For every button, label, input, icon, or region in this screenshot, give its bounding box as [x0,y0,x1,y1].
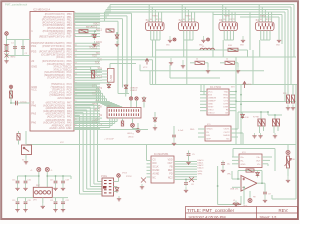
C6 label [191,184,195,186]
capacitor C7 [221,161,225,167]
svg-text:PD: PD [169,174,173,176]
vcc rail y144 [26,144,296,146]
junction opamp [217,185,219,187]
C7 stem [222,167,224,169]
net label H [276,45,280,47]
svg-text:VCC: VCC [31,88,37,92]
R11 wires [190,63,208,67]
svg-text:VB1: VB1 [166,45,170,47]
net label G [240,45,244,47]
D10 label [245,117,250,119]
IC4 pin names [153,159,174,179]
svg-text:PWR3: PWR3 [224,16,231,18]
pot arrow [285,159,292,167]
ground G15 [153,125,157,131]
capacitor C11 [24,179,28,185]
ground G19 [186,160,190,165]
svg-text:NC: NC [153,177,157,179]
c14 label [12,200,15,202]
capacitor C5 [187,152,191,158]
X1 label [146,18,150,22]
svg-text:VTref: VTref [122,172,127,175]
svg-text:OUT1: OUT1 [224,129,231,131]
R11 value [196,59,198,61]
svg-text:VB4: VB4 [276,45,280,47]
ground G4 [277,36,281,43]
svg-text:PMT_controller.sch: PMT_controller.sch [5,3,28,7]
svg-text:T2: T2 [233,19,235,21]
IC1 junctions [235,91,242,134]
svg-text:GND: GND [208,103,213,105]
c13 label [66,180,69,182]
svg-text:VS-: VS- [257,164,261,166]
svg-text:AVCC: AVCC [96,41,103,44]
svg-text:+ C8 10uF: + C8 10uF [104,139,114,141]
inductor feed wire [156,50,253,85]
svg-text:OSCI: OSCI [208,109,214,111]
resistor R11 [195,61,205,64]
svg-text:C16: C16 [28,180,31,182]
svg-text:USBDP: USBDP [130,90,138,92]
svg-text:S0: S0 [150,19,152,21]
title block [186,207,298,220]
supply pin P6 [135,97,138,100]
c15 label [28,200,31,202]
ground G37 [24,158,28,164]
supply pin P7 [117,174,121,178]
resistor R10 [228,48,238,51]
hdr text [127,133,134,135]
svg-text:3V3: 3V3 [231,87,234,89]
USB pin wires [74,64,136,81]
svg-text:BAT54: BAT54 [86,26,92,29]
svg-text:DSR: DSR [223,106,228,108]
net label A [152,16,159,18]
svg-text:REV:: REV: [279,208,289,213]
svg-text:1k: 1k [226,59,228,61]
switch S1 [22,145,32,155]
ground G13 [4,56,8,64]
IC3 label [242,152,246,154]
rpair dots [260,111,276,116]
date text [189,214,226,219]
JTAG label [101,175,107,178]
jtag text [122,172,127,175]
circ stems [131,100,137,107]
hdr text2 [128,136,135,138]
svg-text:10u: 10u [227,164,230,166]
diode D9 [256,171,260,178]
capacitor C3 [16,101,18,106]
diode D10 [241,113,245,119]
supply pin P1 [173,38,176,41]
ground G10 [291,105,295,111]
svg-text:TEST: TEST [208,106,214,108]
S1 label [22,160,25,162]
svg-text:VCC: VCC [60,142,65,144]
out label [243,206,248,208]
vcc1 label [143,67,148,69]
mid rail y71 [140,65,264,71]
inductor L1 [200,48,214,50]
resistor R12 [225,61,235,64]
R14 feed [292,85,294,96]
svg-text:DAC0: DAC0 [198,159,205,162]
IC1 note [231,87,234,89]
ground G9 [286,105,290,111]
rail note [60,142,65,144]
svg-text:INT0: INT0 [97,88,103,90]
svg-text:PD3: PD3 [31,50,37,54]
supply pin P3 [5,32,9,36]
Rpair feeds [261,112,282,119]
ground G17 [117,196,121,201]
net label B [185,16,192,18]
svg-text:C15: C15 [12,180,15,182]
svg-text:IN-: IN- [241,160,244,162]
right loop wires [272,85,296,200]
JTAG fan wires [74,102,102,194]
usb net text [130,88,138,90]
svg-text:GND: GND [31,65,37,69]
ground G27 [234,201,238,207]
ground G23 [258,133,262,138]
svg-text:SS: SS [99,115,103,117]
svg-text:OUT: OUT [256,160,261,162]
svg-text:ADC1: ADC1 [96,28,103,31]
X3 label [219,18,223,22]
jtag text2 [126,176,132,178]
MCU lower stubs [74,118,148,130]
svg-text:R13: R13 [283,93,286,95]
pin header JP2 [107,108,141,119]
PMT top wires [18,172,72,188]
ground G12 [115,41,119,47]
C3 label [20,102,28,104]
resistor R17 [246,169,254,172]
ground G26 [263,196,267,203]
IC2 right pin wires [74,14,100,128]
opamp feedback wires [238,171,265,191]
diode D8 [115,187,119,193]
svg-text:(RESET/dW/PCINT14) RST: (RESET/dW/PCINT14) RST [39,35,72,38]
VR label [227,174,232,176]
supply pin P4 [9,85,12,88]
Q1 value [11,57,16,59]
svg-text:TCK: TCK [95,62,100,64]
svg-text:PWR2: PWR2 [185,16,192,18]
pin header JP1 JTAG [102,178,114,196]
svg-text:USBDP: USBDP [208,100,216,102]
svg-text:(OC1A) PD5: (OC1A) PD5 [56,56,72,59]
capacitor C17 [61,200,65,206]
connector lower wires [151,12,270,85]
PMT connector JP3 [33,187,52,197]
crystal Q1 [4,45,9,52]
svg-text:IC1 FT232: IC1 FT232 [210,87,222,89]
IC4 wires [147,145,198,180]
svg-text:DGND: DGND [153,170,160,172]
svg-text:EN: EN [207,135,210,137]
svg-text:AGND / AVCC GND: AGND / AVCC GND [49,127,71,130]
ground G32 [15,206,19,212]
USB routing wires [74,13,132,96]
c12 label [50,180,53,182]
svg-text:VCC: VCC [143,67,148,69]
IC1 label [210,87,222,89]
svg-text:PWR1: PWR1 [152,16,159,18]
ground G20 [184,187,188,193]
rpair label [253,117,260,119]
ground G21 [221,168,225,173]
C2 label [25,53,29,55]
c17 label [66,200,69,202]
svg-text:VDD: VDD [168,159,173,161]
IC3 wires [232,149,275,172]
ground G5 [169,58,173,65]
svg-text:LED2 r: LED2 r [128,136,135,138]
svg-text:VR+: VR+ [227,174,232,176]
ground G31 [61,185,65,191]
IC3 box [239,154,262,168]
svg-text:MISO: MISO [94,109,100,111]
PMT dots [25,175,64,177]
diode D1 [93,32,97,40]
svg-text:AGND: AGND [153,173,160,176]
svg-text:TITLE: PMT_controller: TITLE: PMT_controller [187,208,235,213]
L1 label [202,46,205,48]
C9 label [268,194,272,196]
pot label [291,159,296,161]
svg-text:OUT2: OUT2 [224,132,231,134]
X2 label [179,18,183,22]
PMT bottom wires [18,198,69,203]
ground G1 [168,36,172,43]
vcc2 label [247,84,252,86]
fb dots [237,178,263,188]
IC3 pin names [241,157,262,166]
resistor R13 [286,95,289,103]
svg-text:Sheet: 1/1: Sheet: 1/1 [260,215,277,219]
mid rail y78 [170,65,220,78]
ground G22 [252,133,256,138]
net label C [224,16,231,18]
svg-text:USB: USB [109,75,113,81]
diode D7 [153,116,157,123]
resistor R14 [291,95,294,103]
svg-text:IC4 MAX5354: IC4 MAX5354 [154,153,169,156]
U5B label [230,188,239,190]
IC1 box [207,89,229,115]
ground G25 [286,176,290,183]
S1 wires [25,131,27,158]
svg-text:S0: S0 [260,19,262,21]
svg-text:FB: FB [170,167,173,169]
resistor R5 [91,71,94,79]
IC1 wires [200,57,241,145]
op-amp U5B [241,176,257,192]
svg-text:NC: NC [226,138,230,140]
svg-text:PWR4: PWR4 [260,16,267,18]
C4 label2 [104,139,114,141]
svg-text:SHDN: SHDN [223,135,230,137]
svg-text:S0: S0 [183,19,185,21]
connector feed drops [149,5,271,23]
c11 label [28,180,31,182]
svg-text:L2: L2 [233,200,235,202]
svg-text:SCLK: SCLK [153,167,159,169]
ground G34 [53,206,57,212]
JP3 label [33,200,37,202]
ground G35 [61,206,65,212]
svg-text:BYP: BYP [207,138,212,140]
svg-text:IC2 MEGA32-A: IC2 MEGA32-A [33,8,51,11]
ground G16 [172,139,176,146]
svg-text:USBDM: USBDM [130,88,138,90]
svg-text:DTR: DTR [224,103,229,105]
ground G29 [23,185,27,191]
capacitor C1 [13,45,17,51]
svg-text:OUT: OUT [243,206,248,208]
IC5 left labels [190,129,195,131]
crystal loop wires [7,36,31,56]
ground G3 [241,36,245,43]
svg-text:TXD: TXD [95,91,100,93]
svg-text:VCC: VCC [208,91,213,93]
svg-text:C17: C17 [50,180,53,182]
svg-text:OUT: OUT [168,163,173,165]
capacitor C16 [54,200,58,206]
varistor RV1 [5,54,9,58]
pot feed [287,145,289,151]
IC5 box [205,126,231,141]
IC5 pin names [207,129,231,141]
svg-text:X3: X3 [219,18,223,22]
c10 label [12,180,15,182]
C1 label [11,43,15,45]
svg-text:X1: X1 [146,18,150,22]
svg-text:R1: R1 [156,19,158,21]
svg-text:C18: C18 [66,180,69,182]
svg-text:TXD: TXD [224,91,229,93]
R12 value [226,59,228,61]
svg-text:C22: C22 [66,200,69,202]
C7 value [227,164,230,166]
connector X3 [219,22,238,31]
net label E [166,45,170,47]
title text [187,208,235,213]
svg-text:C19: C19 [12,200,15,202]
zener Z1 [141,178,146,183]
ground G18 [140,184,144,189]
svg-text:9/3/2007 4:05:06 PM: 9/3/2007 4:05:06 PM [189,214,226,219]
header bottom wires [123,112,156,129]
svg-text:1k: 1k [196,59,198,61]
capacitor C12 [54,179,58,185]
left lower wires [11,89,30,104]
pot stem [287,168,289,176]
capacitor C4 [172,133,176,139]
capacitor C9 [263,190,267,196]
resistor R3 [106,29,114,32]
svg-text:CS: CS [153,159,157,161]
D10 stem [241,112,243,114]
svg-text:T2: T2 [192,19,194,21]
capacitor C10 [16,179,20,185]
svg-text:PA3: PA3 [31,112,36,116]
D1 value [86,26,92,29]
svg-text:X2: X2 [179,18,183,22]
svg-text:CB: CB [225,112,229,114]
supply pin P10 [45,168,49,172]
resistor R9 [272,119,275,126]
header feed wires [74,85,122,107]
svg-text:SPI1: SPI1 [198,173,204,175]
mid rail y101 [236,101,296,103]
supply pin P5 [129,97,132,100]
net label F [199,45,203,47]
svg-text:(TCK/PCINT10) PC2: (TCK/PCINT10) PC2 [47,77,72,80]
svg-text:RTCK: RTCK [126,176,132,178]
svg-text:REG: REG [190,129,195,131]
capacitor C2 [21,45,25,51]
R18 wires [18,131,20,145]
IC2 pin names [31,13,72,130]
junction dots top [94,30,118,34]
IC5 wires [198,112,268,145]
svg-text:GND: GND [241,164,246,166]
connector X4 [256,22,275,31]
net label D [260,16,267,18]
L2 value [233,200,235,202]
IC1 pin names [208,91,229,114]
R12 wires [220,63,238,67]
resistor R7 [258,119,261,126]
svg-text:LED1 g: LED1 g [127,133,134,135]
mid rail y57 [74,56,296,58]
C4 label [178,130,184,132]
svg-text:DIN: DIN [153,163,157,165]
diode D2 [115,33,119,40]
potentiometer RP1 [286,156,289,168]
JP2 label [107,105,111,107]
svg-text:X4: X4 [256,18,260,22]
capacitor C15 [24,200,28,206]
ground G2 [201,36,205,43]
X4 label [256,18,260,22]
svg-text:OSCO: OSCO [208,112,215,114]
svg-text:T2: T2 [159,19,161,21]
opamp drive vertical [218,166,241,205]
junction dot C6 [185,179,187,181]
junction dot left [10,102,12,104]
USB label [109,75,113,81]
connector X1 [146,22,165,31]
svg-text:NC2: NC2 [168,177,173,179]
svg-text:GND1: GND1 [207,129,214,131]
supply pin P2 [207,38,210,41]
svg-text:USBDM: USBDM [208,97,216,99]
svg-text:RTS: RTS [224,97,229,99]
JTAG right stubs [114,178,119,193]
top bus wires [105,5,295,102]
svg-text:PD1: PD1 [31,44,37,48]
ground G36 [41,203,45,209]
svg-text:R1: R1 [266,19,268,21]
D5 stem [143,103,145,108]
IC2 pin numbers [75,13,77,127]
rev label [279,208,289,213]
